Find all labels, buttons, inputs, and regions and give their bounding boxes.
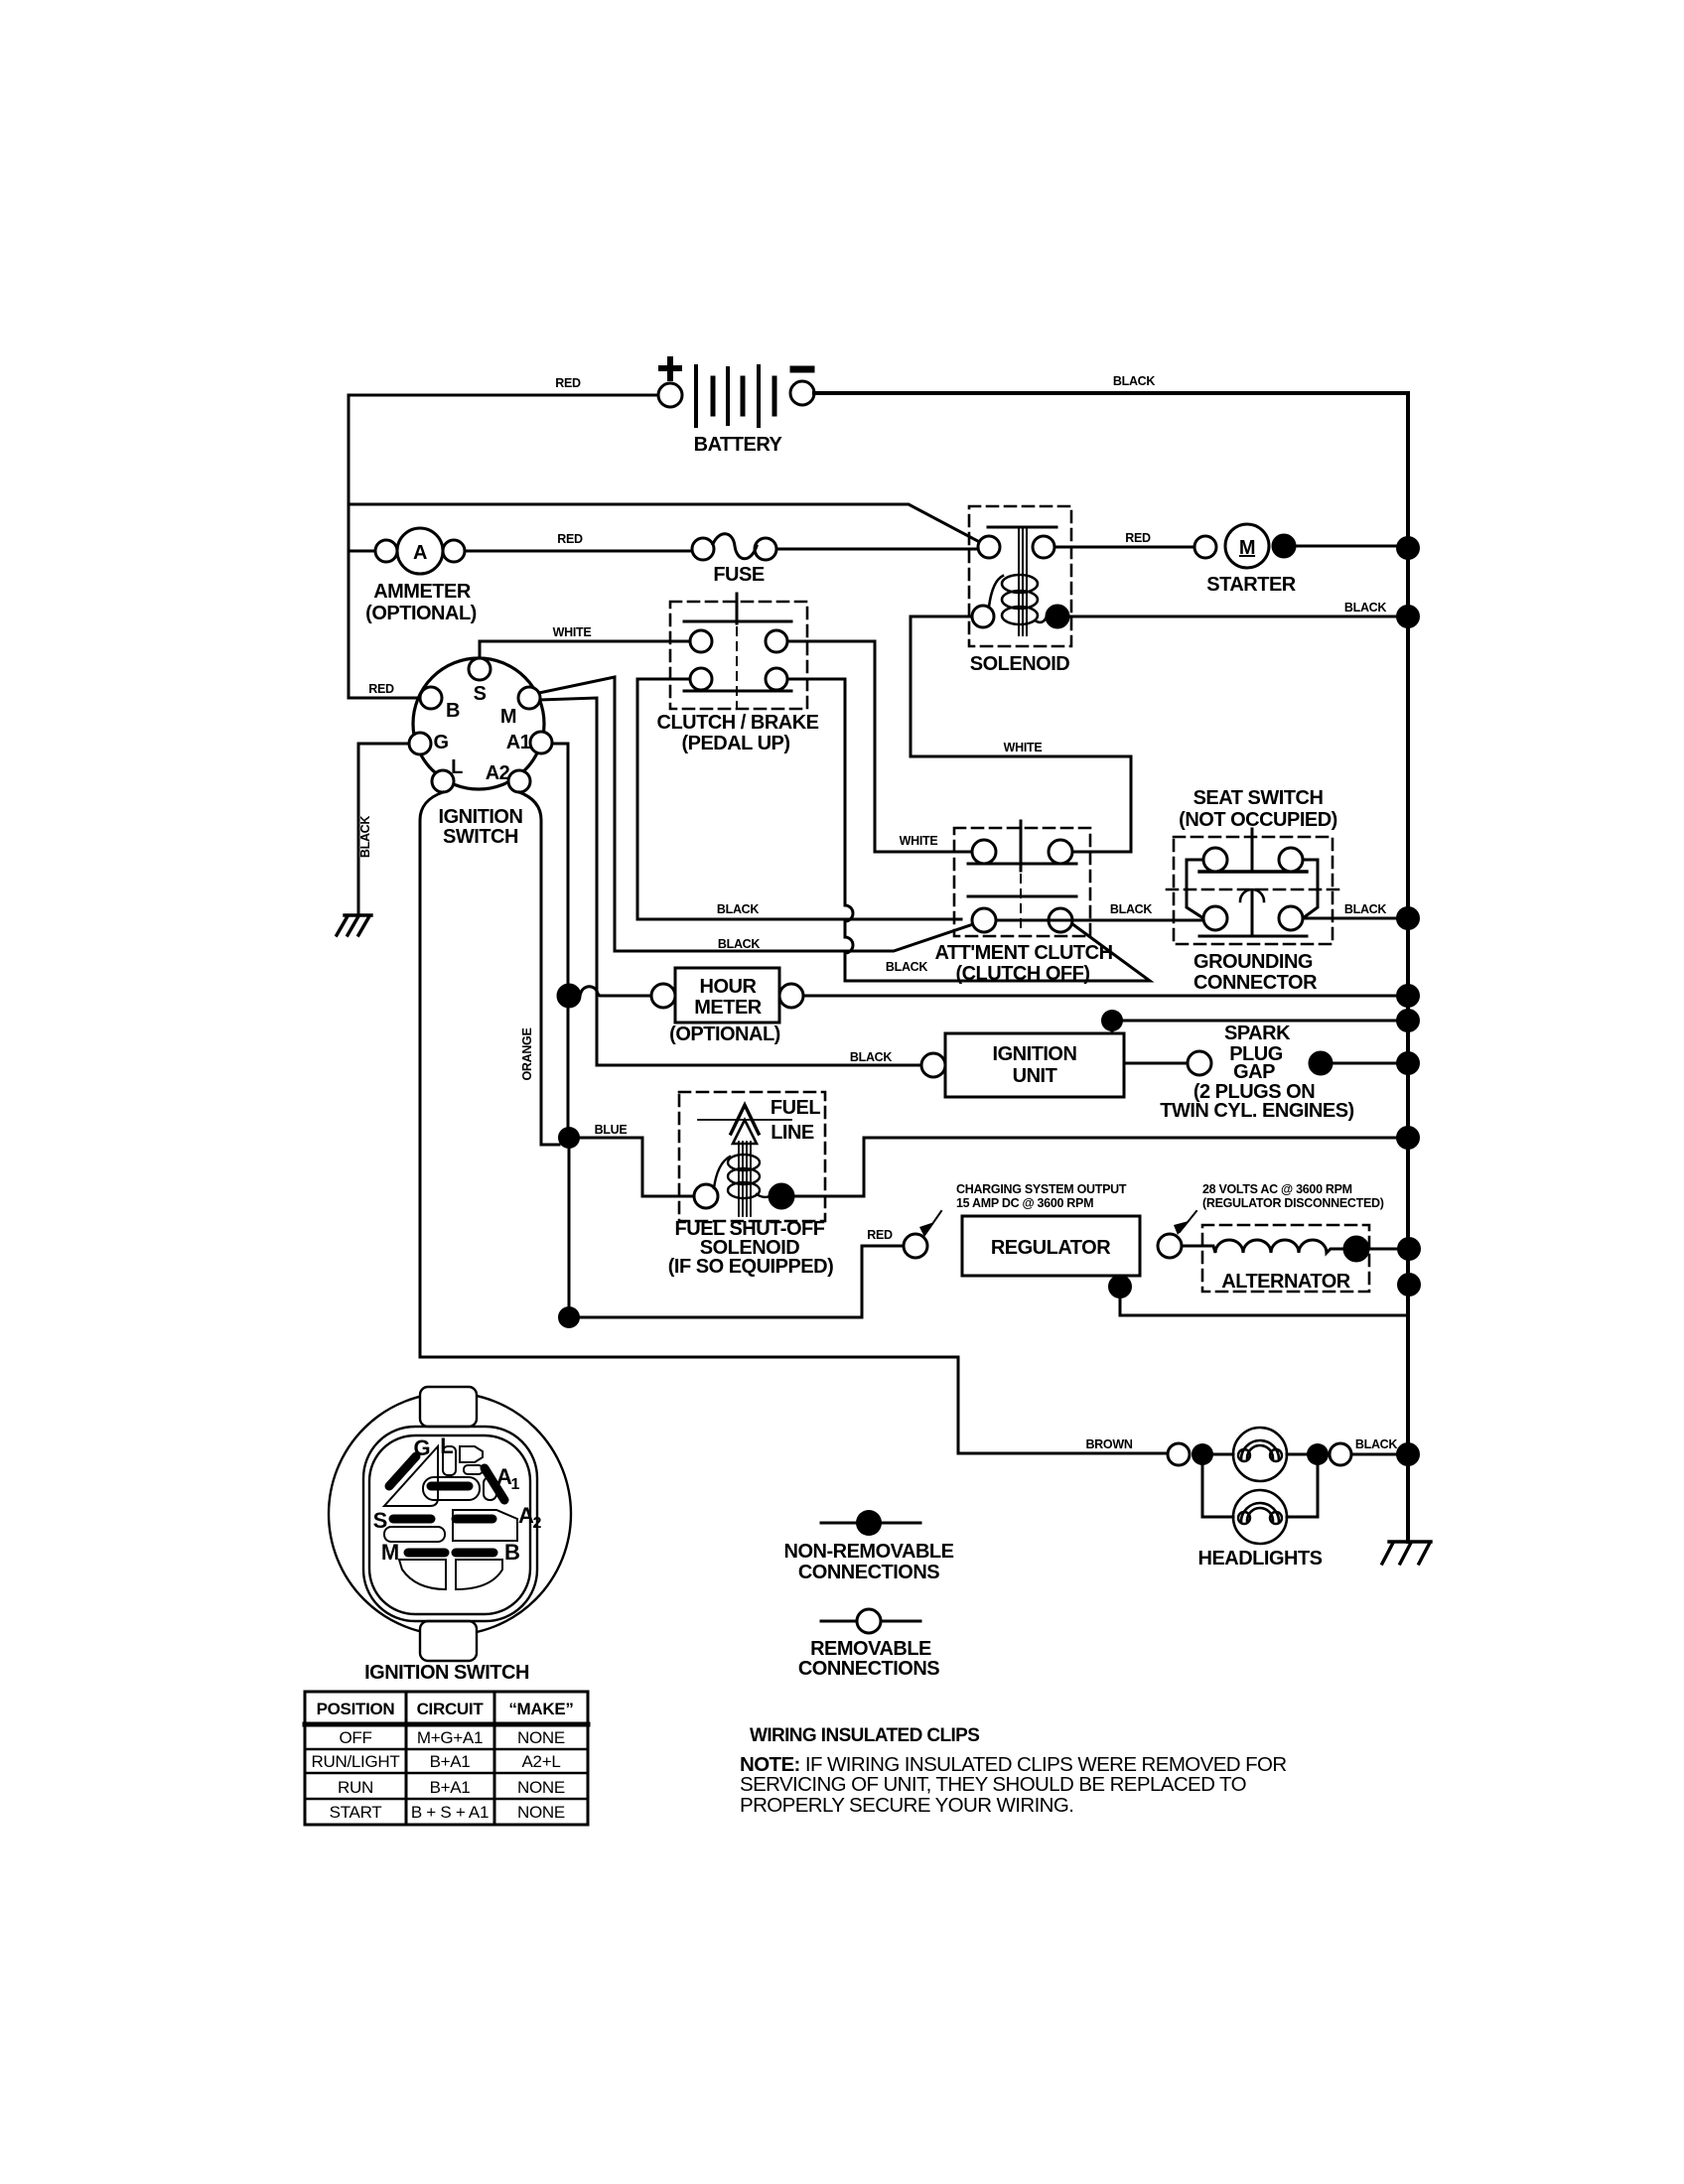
svg-text:(PEDAL UP): (PEDAL UP): [681, 733, 789, 754]
wire L down to lights line: [420, 792, 958, 1453]
svg-text:SPARK: SPARK: [1224, 1023, 1291, 1044]
junction dot bus/ignition top: [1396, 1009, 1420, 1032]
svg-text:NONE: NONE: [517, 1778, 565, 1797]
junction dot headlight right: [1307, 1443, 1329, 1465]
wire battery positive (RED): [349, 395, 658, 551]
regulator: [904, 1216, 1182, 1276]
svg-text:BROWN: BROWN: [1085, 1437, 1132, 1451]
ignition switch table: [305, 1692, 588, 1825]
svg-text:BLUE: BLUE: [595, 1123, 628, 1137]
svg-text:HEADLIGHTS: HEADLIGHTS: [1198, 1548, 1323, 1570]
svg-text:UNIT: UNIT: [1013, 1065, 1057, 1087]
att'ment clutch (clutch off): [934, 821, 1112, 985]
ignition switch connector illustration: [329, 1387, 571, 1661]
ground (left): [337, 915, 371, 935]
pin letters: [373, 1433, 542, 1565]
svg-text:WHITE: WHITE: [900, 834, 938, 848]
wire battery negative (BLACK) to right bus: [814, 391, 1406, 395]
junction dot bus/headlights: [1396, 1442, 1420, 1466]
svg-text:A2+L: A2+L: [522, 1752, 561, 1771]
ground (bottom right): [1382, 1542, 1431, 1564]
junction dot headlight left: [1192, 1443, 1213, 1465]
svg-text:(OPTIONAL): (OPTIONAL): [669, 1024, 780, 1045]
svg-text:SOLENOID: SOLENOID: [970, 653, 1070, 675]
svg-text:ORANGE: ORANGE: [520, 1027, 534, 1080]
svg-text:REMOVABLE: REMOVABLE: [810, 1638, 931, 1660]
svg-text:CONNECTIONS: CONNECTIONS: [798, 1562, 939, 1583]
wire hour meter to bus: [803, 995, 1408, 998]
junction dot bus/seat switch: [1396, 906, 1420, 930]
battery: [658, 359, 814, 456]
svg-text:SWITCH: SWITCH: [443, 826, 518, 848]
svg-text:WHITE: WHITE: [1004, 741, 1043, 754]
alternator: [1182, 1225, 1408, 1293]
svg-text:IGNITION SWITCH: IGNITION SWITCH: [364, 1662, 529, 1684]
fuel shut-off solenoid (if so equipped): [668, 1092, 833, 1278]
wire fuel solenoid to bus: [793, 1138, 1408, 1196]
headlight 1: [1213, 1428, 1287, 1481]
wire solenoid to starter (RED): [1054, 546, 1194, 549]
svg-text:(IF SO EQUIPPED): (IF SO EQUIPPED): [668, 1256, 833, 1278]
wire blue junction to fuel solenoid (BLUE): [580, 1138, 694, 1196]
svg-text:(OPTIONAL): (OPTIONAL): [365, 603, 477, 624]
junction dot bus/fuel: [1396, 1126, 1420, 1150]
svg-text:FUEL: FUEL: [771, 1097, 821, 1119]
svg-text:A2: A2: [486, 762, 510, 784]
svg-text:M: M: [1239, 537, 1255, 559]
svg-text:B: B: [446, 700, 460, 722]
svg-text:S: S: [474, 683, 487, 705]
svg-text:IGNITION: IGNITION: [993, 1043, 1077, 1065]
ignition switch (schematic): [409, 658, 552, 848]
G slot triangle: [384, 1446, 438, 1506]
fuse: [692, 534, 776, 586]
svg-text:L: L: [451, 756, 463, 778]
wire G to ground (BLACK): [358, 744, 409, 915]
wire M to ignition unit (BLACK): [540, 698, 921, 1065]
svg-text:GROUNDING: GROUNDING: [1193, 951, 1313, 973]
junction dot ignition unit top: [1101, 1010, 1123, 1031]
junction dot bus lower: [1397, 1273, 1421, 1297]
svg-text:RED: RED: [867, 1228, 893, 1242]
svg-text:RUN: RUN: [338, 1778, 373, 1797]
svg-text:WIRING INSULATED CLIPS: WIRING INSULATED CLIPS: [750, 1725, 979, 1746]
legend non-removable connections: [784, 1510, 954, 1583]
wire M to att'ment clutch blade: [539, 677, 973, 951]
svg-text:CONNECTOR: CONNECTOR: [1193, 972, 1318, 994]
headlight 2: [1198, 1490, 1323, 1570]
svg-text:M+G+A1: M+G+A1: [417, 1728, 483, 1747]
right bus wire: [1406, 393, 1410, 1542]
middle slots: [423, 1477, 480, 1500]
wire ammeter branch to B (RED): [349, 551, 420, 698]
svg-text:POSITION: POSITION: [317, 1700, 395, 1718]
S row lower slot: [384, 1527, 445, 1542]
svg-text:1: 1: [511, 1476, 520, 1493]
wire brown to headlights (BROWN): [958, 1452, 1168, 1455]
wire ignition unit top to bus: [1112, 1021, 1408, 1033]
wire hour meter junction down to blue junction: [567, 1007, 570, 1138]
wire solenoid BL white to att'ment clutch TR: [911, 616, 1131, 852]
junction dot blue wire: [558, 1127, 580, 1149]
A2 slot: [453, 1510, 517, 1541]
svg-text:NONE: NONE: [517, 1728, 565, 1747]
ammeter A (optional): [365, 528, 477, 624]
svg-text:G: G: [413, 1435, 430, 1460]
wire clutch/brake BL to att'ment BL (BLACK): [637, 679, 961, 919]
wire to bus (BLACK): [1351, 1453, 1408, 1456]
wire clutch/brake TR white to att'ment TL (WHITE): [787, 641, 972, 852]
svg-text:REGULATOR: REGULATOR: [991, 1237, 1111, 1259]
svg-text:(REGULATOR DISCONNECTED): (REGULATOR DISCONNECTED): [1202, 1196, 1384, 1210]
junction dot regulator bottom: [1108, 1275, 1132, 1298]
svg-text:(NOT OCCUPIED): (NOT OCCUPIED): [1179, 809, 1337, 831]
starter M: [1194, 524, 1408, 596]
svg-text:RUN/LIGHT: RUN/LIGHT: [312, 1752, 400, 1771]
svg-text:15 AMP DC @ 3600 RPM: 15 AMP DC @ 3600 RPM: [956, 1196, 1093, 1210]
svg-text:BLACK: BLACK: [718, 937, 761, 951]
wire headlight 2 branch: [1202, 1465, 1318, 1517]
svg-text:A: A: [413, 542, 427, 564]
spark plug gap: [1124, 1023, 1408, 1122]
svg-text:B + S + A1: B + S + A1: [411, 1803, 489, 1822]
svg-text:CHARGING SYSTEM OUTPUT: CHARGING SYSTEM OUTPUT: [956, 1182, 1127, 1196]
thick bars: [389, 1456, 504, 1553]
svg-text:A1: A1: [506, 732, 531, 753]
junction dot regulator feed: [558, 1306, 580, 1328]
svg-text:NONE: NONE: [517, 1803, 565, 1822]
small slot below pentagon: [464, 1465, 483, 1474]
wire att'ment BL to seat switch BL (BLACK): [996, 919, 1203, 922]
svg-text:RED: RED: [1125, 531, 1151, 545]
svg-text:PROPERLY SECURE YOUR WIRING.: PROPERLY SECURE YOUR WIRING.: [740, 1794, 1073, 1817]
hour meter (optional): [558, 968, 803, 1045]
removable connection headlight left: [1168, 1443, 1190, 1465]
svg-text:BLACK: BLACK: [886, 960, 928, 974]
L slot: [443, 1446, 456, 1475]
wire A1 down to hour meter junction: [552, 744, 568, 985]
junction dot bus/alternator: [1397, 1237, 1421, 1261]
svg-text:B+A1: B+A1: [430, 1752, 471, 1771]
svg-text:B: B: [504, 1540, 520, 1565]
svg-text:WHITE: WHITE: [553, 625, 592, 639]
svg-text:G: G: [433, 732, 448, 753]
svg-text:M: M: [500, 706, 516, 728]
solenoid: [969, 506, 1071, 675]
wire solenoid coil to bus (BLACK): [1068, 615, 1408, 618]
wire ammeter to fuse (RED): [465, 550, 692, 553]
svg-text:START: START: [330, 1803, 382, 1822]
svg-text:FUSE: FUSE: [713, 564, 765, 586]
bottom fan slots: [399, 1560, 446, 1589]
removable connection headlight right: [1330, 1443, 1351, 1465]
junction dot bus/solenoid black: [1396, 605, 1420, 628]
junction dot bus/starter: [1396, 536, 1420, 560]
svg-text:S: S: [373, 1508, 388, 1533]
svg-text:BLACK: BLACK: [1344, 601, 1387, 614]
svg-text:CIRCUIT: CIRCUIT: [417, 1700, 485, 1718]
svg-text:RED: RED: [368, 682, 394, 696]
clutch/brake (pedal up): [657, 594, 819, 754]
svg-text:BLACK: BLACK: [1113, 374, 1156, 388]
svg-text:STARTER: STARTER: [1206, 574, 1297, 596]
wire seat switch BR to bus (BLACK): [1303, 917, 1408, 920]
svg-text:2: 2: [533, 1515, 542, 1532]
svg-text:AMMETER: AMMETER: [373, 581, 472, 603]
svg-text:SERVICING OF UNIT, THEY SHOULD: SERVICING OF UNIT, THEY SHOULD BE REPLAC…: [740, 1773, 1246, 1796]
ignition unit: [921, 1033, 1124, 1097]
svg-text:RED: RED: [557, 532, 583, 546]
svg-text:“MAKE”: “MAKE”: [508, 1700, 573, 1718]
legend removable connections: [798, 1609, 939, 1680]
wire S to clutch/brake TL (WHITE): [480, 641, 690, 658]
wire A2 down (ORANGE): [519, 792, 559, 1145]
svg-text:BLACK: BLACK: [1355, 1437, 1398, 1451]
wire clutch/brake BR to att'ment BR (BLACK) with crossover bumps: [787, 679, 1150, 981]
svg-text:NON-REMOVABLE: NON-REMOVABLE: [784, 1541, 954, 1563]
svg-text:BLACK: BLACK: [1110, 902, 1153, 916]
wire junction to regulator (RED): [580, 1246, 904, 1317]
svg-text:LINE: LINE: [771, 1122, 814, 1144]
svg-text:L: L: [440, 1433, 453, 1458]
svg-text:OFF: OFF: [339, 1728, 371, 1747]
svg-text:M: M: [381, 1540, 399, 1565]
svg-text:B+A1: B+A1: [430, 1778, 471, 1797]
junction dot bus/hour meter: [1396, 984, 1420, 1008]
svg-text:SEAT SWITCH: SEAT SWITCH: [1193, 787, 1324, 809]
wiring insulated clips note: [740, 1725, 1287, 1817]
svg-text:CONNECTIONS: CONNECTIONS: [798, 1658, 939, 1680]
svg-text:IGNITION: IGNITION: [439, 806, 523, 828]
svg-text:GAP: GAP: [1233, 1061, 1275, 1083]
svg-text:ATT'MENT CLUTCH: ATT'MENT CLUTCH: [934, 942, 1112, 964]
seat switch (not occupied): [1167, 787, 1341, 994]
svg-text:(CLUTCH OFF): (CLUTCH OFF): [955, 963, 1089, 985]
svg-text:28 VOLTS AC @ 3600 RPM: 28 VOLTS AC @ 3600 RPM: [1202, 1182, 1352, 1196]
svg-text:BLACK: BLACK: [358, 816, 372, 859]
wire fuse to solenoid: [776, 548, 978, 551]
wire headlight 1 right: [1287, 1453, 1307, 1456]
svg-text:BLACK: BLACK: [1344, 902, 1387, 916]
svg-text:BLACK: BLACK: [717, 902, 760, 916]
wire regulator bottom to bus: [1120, 1276, 1408, 1315]
wire blue junction down to regulator junction: [568, 1149, 571, 1317]
svg-text:BLACK: BLACK: [850, 1050, 893, 1064]
junction dot bus/spark plug: [1396, 1051, 1420, 1075]
svg-text:CLUTCH / BRAKE: CLUTCH / BRAKE: [657, 712, 819, 734]
upper right slot: [460, 1446, 483, 1462]
svg-text:BATTERY: BATTERY: [694, 434, 783, 456]
svg-text:ALTERNATOR: ALTERNATOR: [1221, 1271, 1350, 1293]
svg-text:METER: METER: [694, 997, 763, 1019]
svg-text:RED: RED: [555, 376, 581, 390]
svg-text:TWIN CYL. ENGINES): TWIN CYL. ENGINES): [1160, 1100, 1353, 1122]
svg-text:HOUR: HOUR: [700, 976, 758, 998]
